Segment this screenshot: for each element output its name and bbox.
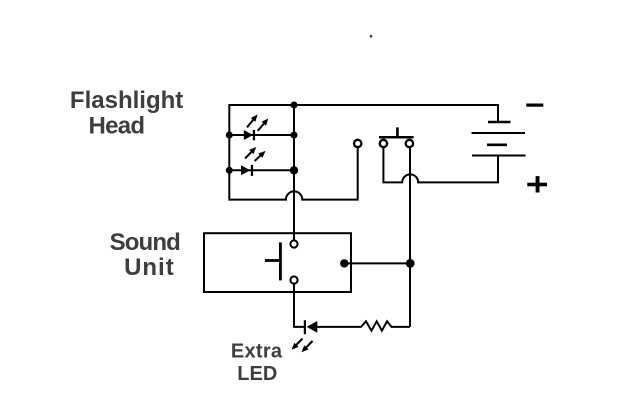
battery plus label [527, 176, 547, 192]
svg-text:Unit: Unit [124, 254, 175, 281]
wire top bus with battery negative stub [229, 105, 498, 122]
wire bottom of flashlight head with hop over vertical, up to holder contact [229, 147, 357, 199]
LED D2 light arrows [245, 147, 266, 161]
pushbutton switch S1 [379, 127, 414, 147]
wire LED row 1 [229, 134, 294, 136]
svg-text:Sound: Sound [110, 229, 181, 256]
node dot LED row1 left [226, 132, 233, 139]
extra LED D3 [304, 320, 318, 334]
node dot top bus / right vertical [291, 102, 298, 109]
sound unit bottom terminal [290, 276, 297, 283]
node dot LED row2 left [226, 167, 233, 174]
battery minus label [526, 104, 543, 107]
terminal circle battery holder contact [354, 140, 361, 147]
piezo element symbol inside sound unit [265, 242, 282, 280]
wire left vertical of flashlight head [228, 104, 230, 201]
wire sound unit tap to right vertical [344, 262, 410, 264]
extra LED light arrows [292, 339, 313, 353]
LED D1 [244, 130, 255, 140]
node dot on sound unit right edge [340, 259, 348, 267]
svg-text:Head: Head [89, 113, 145, 140]
node dot junction with right vertical [406, 259, 415, 268]
battery B1 [472, 122, 526, 156]
wire LED row 2 [229, 169, 294, 171]
svg-text:Flashlight: Flashlight [70, 87, 183, 114]
wire switch left terminal to battery positive with hop over vertical [383, 147, 498, 182]
node dot LED row1 right [291, 132, 298, 139]
LED D2 [241, 165, 253, 176]
wire right vertical from top bus to sound unit top terminal [293, 105, 295, 241]
wire sound unit bottom terminal to extra LED [294, 284, 305, 327]
LED D1 light arrows [247, 115, 268, 131]
node dot LED row2 right [290, 166, 298, 174]
wire switch right terminal down through both hops to resistor corner [409, 147, 411, 327]
wire and resistor R1 from extra LED to right vertical [317, 321, 410, 330]
sound unit top terminal [290, 240, 297, 247]
svg-text:LED: LED [237, 363, 277, 385]
sound unit box [204, 233, 351, 292]
svg-text:Extra: Extra [231, 340, 283, 362]
stray mark top [370, 35, 373, 38]
